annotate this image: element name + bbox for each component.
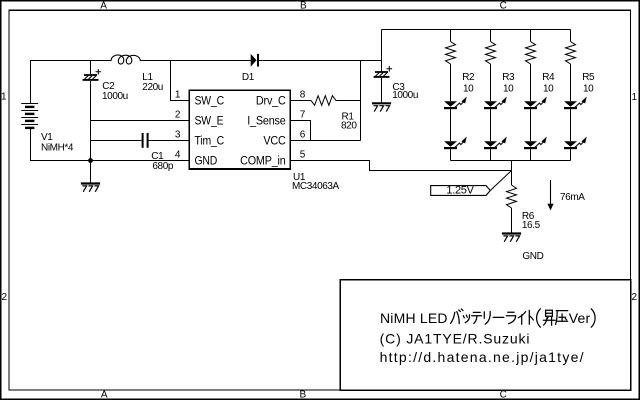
kana ri: [483, 312, 485, 318]
resistor R5: [566, 42, 576, 65]
capacitor C1: [142, 134, 144, 147]
title block box: [340, 280, 630, 390]
svg-text:820: 820: [341, 121, 357, 132]
kanji shou (rise): [546, 310, 553, 316]
svg-text:16.5: 16.5: [522, 220, 541, 231]
wire R6 tap vertical: [511, 161, 513, 186]
wire R5 to LED row1: [570, 64, 572, 101]
LED row2 col R2: [444, 141, 457, 147]
svg-text:Tim_C: Tim_C: [195, 135, 225, 148]
wire VCC vertical node: [360, 61, 362, 141]
wire column R5 top: [570, 30, 572, 42]
wire LED row1 to row2 col R2: [450, 109, 452, 141]
svg-text:(C) JA1TYE/R.Suzuki: (C) JA1TYE/R.Suzuki: [380, 330, 531, 346]
wire pin8 Drv_C to R1: [291, 100, 312, 102]
wire LED row2 to bottom rail col R2: [450, 149, 452, 160]
ground below battery rail: [82, 182, 99, 184]
wire LED row2 to bottom rail col R4: [530, 149, 532, 160]
svg-text:MC34063A: MC34063A: [292, 181, 340, 192]
wire LED row1 to row2 col R5: [570, 109, 572, 141]
LED row2 col R5: [564, 141, 577, 147]
svg-text:A: A: [101, 389, 108, 400]
battery V1: [22, 103, 38, 105]
wire LED row1 to row2 col R4: [530, 109, 532, 141]
svg-text:8: 8: [300, 89, 306, 100]
resistor R1: [311, 96, 336, 106]
svg-text:C: C: [500, 389, 507, 400]
ground below C3: [373, 102, 390, 104]
wire Tim_C pin3 left: [91, 140, 142, 142]
current arrow 76mA: [550, 180, 552, 204]
svg-text:COMP_in: COMP_in: [240, 155, 286, 168]
resistor R3: [486, 42, 496, 65]
wire pin5 COMP_in: [291, 161, 512, 171]
LED array bottom rail wire: [451, 160, 571, 162]
svg-text:SW_C: SW_C: [195, 95, 225, 108]
kana ra: [506, 312, 515, 316]
capacitor C2 (electrolytic): [85, 74, 96, 76]
LED row1 col R3: [484, 101, 497, 107]
LED row2 col R3: [484, 141, 497, 147]
inductor L1: [111, 55, 140, 64]
svg-text:R3: R3: [502, 72, 515, 83]
wire SW_E pin2: [91, 120, 190, 122]
wire pin6 VCC: [291, 140, 361, 142]
LED row1 col R2: [444, 101, 457, 107]
title kana (drawn): [451, 309, 595, 327]
svg-text:10: 10: [463, 83, 474, 94]
wire R1 to VCC vertical: [336, 100, 361, 102]
svg-text:10: 10: [543, 83, 554, 94]
svg-text:http://d.hatena.ne.jp/ja1tye/: http://d.hatena.ne.jp/ja1tye/: [380, 349, 585, 365]
wire D1 cathode to C3 node: [259, 60, 382, 62]
junction dot battery gnd node: [88, 158, 93, 163]
svg-text:1: 1: [1, 92, 7, 103]
diode D1: [251, 54, 257, 67]
wire R3 to LED row1: [490, 64, 492, 101]
wire battery top to rail: [31, 61, 112, 104]
op-amp / IC U1 MC34063A box: [189, 90, 290, 169]
svg-text:B: B: [300, 1, 307, 12]
svg-text:2: 2: [632, 292, 638, 303]
svg-text:680p: 680p: [152, 161, 173, 172]
svg-text:R4: R4: [542, 72, 555, 83]
LED row2 col R4: [524, 141, 537, 147]
svg-text:1: 1: [632, 92, 638, 103]
svg-text:R2: R2: [462, 72, 475, 83]
svg-text:Drv_C: Drv_C: [256, 95, 286, 108]
svg-text:76mA: 76mA: [560, 192, 585, 203]
resistor R6: [507, 185, 517, 208]
resistor R2: [446, 42, 456, 65]
kana i: [518, 312, 525, 318]
kana small tsu: [463, 315, 467, 318]
resistor R4: [526, 42, 536, 65]
svg-text:1.25V: 1.25V: [446, 185, 474, 197]
kana te: [472, 312, 482, 315]
svg-text:R5: R5: [582, 72, 595, 83]
wire C3 bottom to ground: [381, 78, 383, 103]
wire column R4 top: [530, 30, 532, 42]
wire C3 node vertical top: [381, 30, 383, 72]
svg-text:2: 2: [2, 292, 8, 303]
svg-text:10: 10: [583, 83, 594, 94]
wire column R3 top: [490, 30, 492, 42]
svg-text:4: 4: [175, 149, 181, 160]
wire pin1 SW_C: [171, 61, 190, 101]
svg-text:NiMH LED: NiMH LED: [380, 310, 448, 326]
LED array top rail wire: [382, 29, 571, 31]
svg-text:VCC: VCC: [263, 135, 285, 148]
svg-text:220u: 220u: [142, 82, 163, 93]
svg-text:7: 7: [300, 109, 306, 120]
wire LED row2 to bottom rail col R3: [490, 149, 492, 160]
LED row1 col R5: [564, 101, 577, 107]
ground below R6: [503, 232, 520, 234]
svg-text:SW_E: SW_E: [195, 115, 225, 128]
fullwidth open paren: [537, 309, 541, 327]
svg-text:B: B: [300, 389, 307, 400]
svg-text:1000u: 1000u: [392, 90, 418, 101]
svg-text:5: 5: [300, 149, 306, 160]
kana to: [528, 310, 530, 324]
svg-text:Ver: Ver: [569, 310, 591, 326]
svg-text:A: A: [100, 1, 107, 12]
svg-text:2: 2: [175, 109, 181, 120]
wire inductor out to D1 anode: [141, 60, 251, 62]
kanji atsu (pressure): [556, 310, 567, 312]
LED row1 col R4: [524, 101, 537, 107]
svg-text:3: 3: [175, 129, 181, 140]
wire pin7 I_Sense: [291, 121, 311, 141]
kana long dash: [493, 316, 504, 318]
svg-text:1000u: 1000u: [102, 91, 128, 102]
kana ba: [451, 312, 455, 323]
net flag 1.25V box: [431, 186, 491, 196]
svg-text:6: 6: [300, 129, 306, 140]
svg-text:10: 10: [503, 83, 514, 94]
svg-text:I_Sense: I_Sense: [247, 115, 285, 128]
wire C2 bottom / gnd vertical: [90, 81, 92, 184]
wire R6 bottom to ground: [511, 208, 513, 234]
net flag 1.25V leader: [490, 171, 511, 191]
capacitor C3 (electrolytic): [376, 71, 387, 73]
wire Tim_C pin3 right: [148, 140, 189, 142]
wire LED row2 to bottom rail col R5: [570, 149, 572, 160]
wire column R2 top: [450, 30, 452, 42]
svg-text:GND: GND: [195, 155, 218, 168]
wire R2 to LED row1: [450, 64, 452, 101]
wire battery bottom to GND rail: [31, 129, 190, 161]
svg-text:D1: D1: [242, 72, 255, 83]
wire R4 to LED row1: [530, 64, 532, 101]
svg-text:NiMH*4: NiMH*4: [41, 142, 74, 153]
svg-text:GND: GND: [522, 251, 543, 262]
fullwidth close paren: [591, 309, 595, 327]
wire LED row1 to row2 col R3: [490, 109, 492, 141]
svg-text:1: 1: [175, 89, 181, 100]
wire C2 top: [90, 61, 92, 75]
svg-text:C: C: [500, 1, 507, 12]
